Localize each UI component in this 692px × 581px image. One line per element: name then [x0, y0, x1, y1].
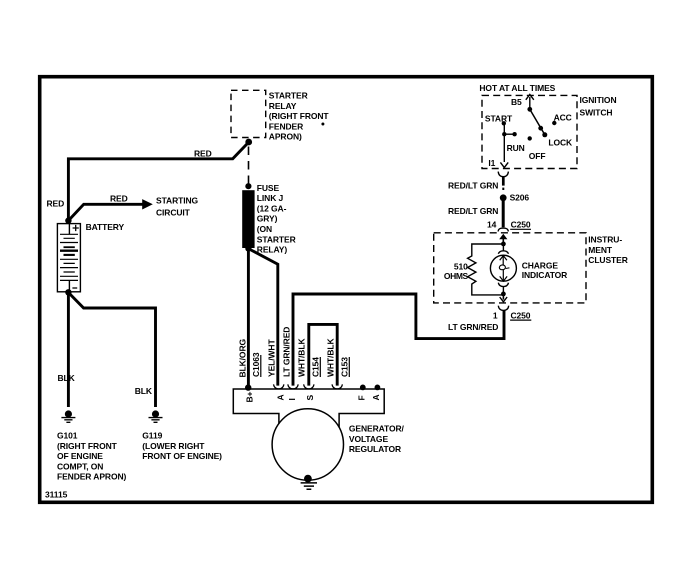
- label FUSE LINK J: [257, 183, 296, 255]
- label BLK right: [135, 386, 153, 396]
- svg-text:RED/LT GRN: RED/LT GRN: [448, 206, 498, 216]
- pin label S: [305, 395, 315, 401]
- svg-text:REGULATOR: REGULATOR: [349, 444, 401, 454]
- svg-text:OF ENGINE: OF ENGINE: [57, 451, 103, 461]
- svg-text:FRONT OF ENGINE): FRONT OF ENGINE): [142, 451, 222, 461]
- connector C250 upper: [498, 219, 531, 231]
- label OFF: [529, 151, 546, 161]
- svg-text:LT GRN/RED: LT GRN/RED: [282, 327, 292, 377]
- svg-text:B5: B5: [511, 97, 522, 107]
- junction battery positive: [65, 217, 71, 223]
- svg-text:I1: I1: [488, 158, 495, 168]
- svg-text:STARTER: STARTER: [269, 91, 308, 101]
- label RED left wire: [47, 198, 65, 208]
- svg-text:I: I: [287, 398, 297, 400]
- svg-text:STARTING: STARTING: [156, 196, 198, 206]
- terminal F dot: [360, 385, 366, 391]
- svg-text:BLK/ORG: BLK/ORG: [238, 339, 248, 378]
- label 510 OHMS: [444, 262, 469, 282]
- arrow out of cluster pin 1: [500, 294, 507, 302]
- svg-text:(ON: (ON: [257, 224, 272, 234]
- label 31115: [45, 490, 68, 500]
- pin label A: [276, 394, 286, 400]
- svg-text:S: S: [305, 395, 315, 401]
- wire LT GRN/RED C250 to generator I: [293, 294, 504, 386]
- label GENERATOR VOLTAGE REGULATOR: [349, 424, 405, 455]
- svg-text:BLK: BLK: [135, 386, 153, 396]
- label RED/LT GRN lower: [448, 206, 498, 216]
- junction cluster top: [501, 242, 506, 247]
- svg-text:GENERATOR/: GENERATOR/: [349, 424, 405, 434]
- label HOT AT ALL TIMES: [479, 83, 555, 93]
- label WHT/BLK rotated left: [296, 338, 306, 377]
- label C154 rotated: [311, 357, 321, 377]
- junction starter relay: [245, 139, 252, 146]
- contact RUN pair: [502, 132, 517, 136]
- svg-text:START: START: [485, 113, 513, 123]
- svg-text:FENDER APRON): FENDER APRON): [57, 472, 126, 482]
- svg-text:HOT AT ALL TIMES: HOT AT ALL TIMES: [479, 83, 555, 93]
- label RED starting circuit: [110, 193, 128, 203]
- label YEL/WHT rotated: [267, 339, 277, 377]
- svg-text:WHT/BLK: WHT/BLK: [296, 338, 306, 377]
- dashed wire relay to fuse: [248, 147, 250, 185]
- junction cluster bottom: [501, 292, 506, 297]
- svg-text:RED: RED: [194, 149, 212, 159]
- splice S206: [500, 194, 507, 201]
- svg-text:GRY): GRY): [257, 214, 278, 224]
- svg-text:FUSE: FUSE: [257, 183, 280, 193]
- label RUN: [507, 143, 525, 153]
- ignition switch dashed box: [482, 95, 577, 168]
- svg-text:A: A: [276, 394, 286, 400]
- label BLK left: [58, 373, 76, 383]
- charge indicator lamp: [490, 244, 516, 294]
- svg-text:INDICATOR: INDICATOR: [522, 270, 568, 280]
- label S206: [510, 193, 530, 203]
- generator circle: [272, 409, 343, 480]
- arrow into cluster pin 14: [499, 234, 507, 244]
- arrow B5 to hot feed: [526, 94, 534, 109]
- svg-text:C154: C154: [311, 357, 321, 377]
- pin 1: [493, 311, 498, 321]
- svg-text:RELAY): RELAY): [257, 245, 288, 255]
- fuse link J: [242, 183, 254, 252]
- battery: [57, 224, 80, 292]
- label START: [485, 113, 513, 123]
- svg-text:COMPT, ON: COMPT, ON: [57, 461, 103, 471]
- junction generator B+: [245, 384, 251, 390]
- svg-text:CHARGE: CHARGE: [522, 260, 559, 270]
- label G119: [142, 431, 222, 462]
- label INSTRUMENT CLUSTER: [588, 235, 627, 266]
- pin label B+: [245, 391, 255, 402]
- starter relay dashed box: [231, 90, 266, 137]
- ground G119: [149, 410, 163, 422]
- label IGNITION SWITCH: [580, 95, 617, 118]
- label ACC: [554, 113, 572, 123]
- svg-text:BLK: BLK: [58, 373, 76, 383]
- svg-text:WHT/BLK: WHT/BLK: [326, 338, 336, 377]
- pin label F: [357, 395, 367, 400]
- label LT GRN/RED: [448, 322, 498, 332]
- wire BLK battery to G119: [68, 293, 155, 408]
- svg-text:MENT: MENT: [588, 245, 613, 255]
- connector below ignition switch: [498, 172, 508, 177]
- svg-text:OFF: OFF: [529, 151, 546, 161]
- svg-text:C1063: C1063: [251, 352, 261, 377]
- wire RED/LT GRN stub: [502, 177, 505, 190]
- svg-text:APRON): APRON): [269, 132, 302, 142]
- contact START: [502, 121, 506, 125]
- svg-text:F: F: [357, 395, 367, 400]
- label RED top wire: [194, 149, 212, 159]
- terminal A dot: [375, 385, 381, 391]
- svg-text:LINK J: LINK J: [257, 193, 284, 203]
- battery label: [86, 222, 125, 232]
- svg-text:G101: G101: [57, 431, 78, 441]
- contact OFF: [528, 136, 532, 140]
- svg-text:(RIGHT FRONT: (RIGHT FRONT: [57, 441, 118, 451]
- svg-text:B+: B+: [245, 391, 255, 402]
- wire RED battery to starter relay: [68, 142, 248, 222]
- pin label I: [287, 398, 297, 400]
- svg-text:(RIGHT FRONT: (RIGHT FRONT: [269, 111, 330, 121]
- wire S206 to C250: [502, 201, 505, 227]
- svg-text:1: 1: [493, 311, 498, 321]
- connector C250 lower: [498, 306, 531, 321]
- label LOCK: [548, 138, 573, 148]
- ground generator case: [301, 475, 317, 490]
- svg-text:STARTER: STARTER: [257, 234, 296, 244]
- svg-text:FENDER: FENDER: [269, 121, 303, 131]
- label I1: [488, 158, 495, 168]
- svg-text:OHMS: OHMS: [444, 271, 469, 281]
- wire RED to starting circuit: [68, 199, 152, 221]
- label C1063 rotated: [251, 352, 261, 377]
- svg-text:(12 GA-: (12 GA-: [257, 203, 287, 213]
- svg-text:RUN: RUN: [507, 143, 525, 153]
- svg-text:C250: C250: [511, 310, 531, 320]
- svg-text:S206: S206: [510, 193, 530, 203]
- svg-text:IGNITION: IGNITION: [580, 95, 617, 105]
- svg-text:VOLTAGE: VOLTAGE: [349, 434, 389, 444]
- label WHT/BLK rotated right: [326, 338, 336, 377]
- svg-text:CIRCUIT: CIRCUIT: [156, 208, 191, 218]
- wire BLK battery to G101: [67, 294, 70, 407]
- ground G101: [61, 410, 75, 422]
- wire START to I1 arrow: [500, 123, 508, 167]
- svg-text:510: 510: [454, 262, 468, 272]
- label LT GRN/RED rotated: [282, 327, 292, 377]
- wire WHT/BLK loop S to C153 pin: [309, 324, 337, 385]
- pin label A right: [371, 394, 381, 400]
- svg-text:SWITCH: SWITCH: [580, 108, 613, 118]
- svg-text:C250: C250: [511, 219, 531, 229]
- label STARTING CIRCUIT: [156, 196, 198, 218]
- svg-text:INSTRU-: INSTRU-: [588, 235, 622, 245]
- svg-text:A: A: [371, 394, 381, 400]
- connector cup pin I: [288, 384, 298, 389]
- wire BLK/ORG fuse to generator B+: [247, 249, 250, 387]
- svg-text:YEL/WHT: YEL/WHT: [267, 339, 277, 377]
- svg-text:LOCK: LOCK: [548, 138, 573, 148]
- svg-text:G119: G119: [142, 431, 162, 441]
- svg-text:LT GRN/RED: LT GRN/RED: [448, 322, 498, 332]
- svg-text:31115: 31115: [45, 490, 68, 500]
- connector cup pin A: [274, 384, 284, 389]
- label CHARGE INDICATOR: [522, 260, 568, 280]
- svg-text:BATTERY: BATTERY: [86, 222, 125, 232]
- connector cup pin C153: [332, 384, 342, 389]
- junction battery negative: [65, 289, 71, 295]
- switch wiper B5 to LOCK: [527, 107, 547, 137]
- svg-text:(LOWER RIGHT: (LOWER RIGHT: [142, 441, 205, 451]
- svg-text:ACC: ACC: [554, 113, 572, 123]
- label B5: [511, 97, 522, 107]
- generator connector bar: [233, 389, 384, 427]
- pin 14: [487, 220, 497, 230]
- stray dot: [321, 123, 324, 126]
- connector cup pin S: [304, 384, 314, 389]
- contact ACC: [552, 121, 556, 125]
- svg-text:C153: C153: [340, 357, 350, 377]
- svg-text:CLUSTER: CLUSTER: [588, 255, 627, 265]
- resistor 510 ohms: [468, 244, 504, 295]
- label C153 rotated: [340, 357, 350, 377]
- svg-text:RED: RED: [110, 193, 128, 203]
- label G101: [57, 431, 126, 482]
- svg-text:14: 14: [487, 220, 497, 230]
- svg-text:RED/LT GRN: RED/LT GRN: [448, 180, 498, 190]
- label STARTER RELAY: [269, 91, 330, 142]
- label RED/LT GRN upper: [448, 180, 498, 190]
- svg-text:RED: RED: [47, 198, 65, 208]
- instrument cluster dashed box: [434, 233, 586, 303]
- wire YEL/WHT fuse to generator A: [248, 249, 277, 386]
- svg-text:RELAY: RELAY: [269, 101, 297, 111]
- label BLK/ORG rotated: [238, 339, 248, 378]
